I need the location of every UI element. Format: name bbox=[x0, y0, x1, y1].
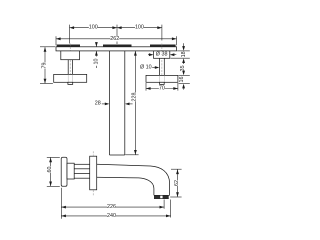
svg-text:10: 10 bbox=[93, 59, 99, 65]
svg-text:60: 60 bbox=[47, 167, 53, 173]
svg-text:100: 100 bbox=[89, 25, 98, 31]
svg-text:28: 28 bbox=[95, 101, 101, 107]
svg-text:262: 262 bbox=[110, 36, 119, 42]
svg-text:62: 62 bbox=[174, 180, 180, 186]
svg-text:16: 16 bbox=[179, 77, 185, 83]
svg-text:228: 228 bbox=[131, 93, 137, 102]
svg-text:240: 240 bbox=[107, 213, 116, 219]
svg-text:18: 18 bbox=[181, 51, 187, 57]
svg-text:70: 70 bbox=[159, 86, 165, 92]
svg-text:226: 226 bbox=[107, 204, 116, 210]
svg-text:100: 100 bbox=[135, 25, 144, 31]
svg-text:Ø 10: Ø 10 bbox=[140, 65, 152, 71]
svg-text:79: 79 bbox=[42, 63, 48, 69]
svg-text:35: 35 bbox=[180, 65, 186, 71]
svg-text:Ø 38: Ø 38 bbox=[156, 52, 168, 58]
